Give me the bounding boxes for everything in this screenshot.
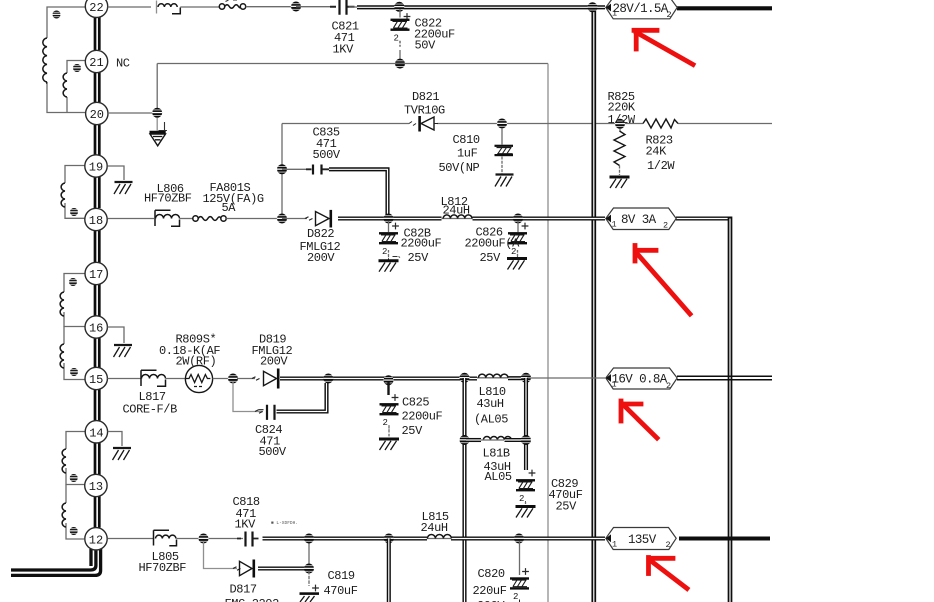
- svg-text:24uH: 24uH: [443, 204, 470, 218]
- svg-text:2: 2: [666, 540, 671, 550]
- wire pin20 net horizontal: [157, 63, 548, 65]
- ground triangle (hatched): [150, 132, 166, 146]
- net tag 135V: [606, 528, 676, 551]
- wire pin20 to junction: [108, 112, 157, 114]
- inductor L805: [154, 530, 177, 546]
- winding 14-13: [62, 432, 86, 485]
- pin19 stub wire: [108, 166, 125, 180]
- inductor L804 (top, label cut off): [157, 1, 181, 14]
- junction D819 anode: [228, 374, 238, 384]
- polarity dot winding C: [70, 474, 78, 482]
- diode D817: [233, 560, 254, 578]
- wire to C835: [282, 168, 310, 170]
- pin 16: [85, 316, 107, 338]
- junction C820 top: [514, 534, 524, 544]
- svg-text:HF70ZBF: HF70ZBF: [144, 192, 192, 206]
- pin 15: [85, 367, 107, 389]
- C825 ground: [379, 439, 399, 450]
- wire under L815: [427, 538, 451, 540]
- svg-text:FMG-2202: FMG-2202: [225, 597, 280, 602]
- 16V rail thick: [280, 376, 477, 380]
- svg-text:25V: 25V: [402, 424, 424, 438]
- inductor L815: [427, 535, 451, 539]
- svg-text:1uF: 1uF: [457, 147, 478, 161]
- riser junctions: [308, 541, 310, 566]
- svg-text:50V(NP: 50V(NP: [439, 161, 480, 175]
- svg-text:1KV: 1KV: [235, 518, 257, 532]
- pin 17: [85, 262, 107, 284]
- capacitor C825: [380, 382, 399, 437]
- svg-text:12: 12: [89, 533, 103, 547]
- svg-text:2200uF: 2200uF: [402, 410, 443, 424]
- junction C835 left: [277, 164, 287, 174]
- vertical net x=465: [462, 378, 466, 602]
- junction L818 right: [521, 435, 531, 445]
- wire pin20 net riser: [156, 64, 158, 109]
- wire pin12 to L805: [108, 538, 155, 540]
- pin 21: [85, 50, 107, 72]
- svg-text:220uF: 220uF: [473, 584, 507, 598]
- polarity dot winding G: [70, 208, 78, 216]
- pin 18: [85, 208, 107, 230]
- 28V rail right segment: [677, 6, 772, 10]
- small tick mark: [159, 122, 168, 131]
- red arrow 2: [635, 246, 690, 315]
- winding 13-12: [62, 485, 84, 540]
- svg-text:NC: NC: [116, 57, 130, 71]
- svg-text:16V 0.8A: 16V 0.8A: [612, 373, 668, 387]
- thick link D817 to junction: [258, 566, 306, 570]
- thin 16V link to tag: [527, 377, 605, 379]
- C826 ground: [507, 259, 527, 270]
- 16V rail right segment (double): [677, 376, 772, 379]
- svg-text:D821: D821: [412, 90, 439, 104]
- svg-text:43uH: 43uH: [477, 397, 504, 411]
- pin 13: [85, 474, 107, 496]
- svg-text:1/2W: 1/2W: [608, 113, 636, 127]
- svg-text:500V: 500V: [259, 445, 287, 459]
- svg-text:5A: 5A: [222, 201, 237, 215]
- svg-text:2: 2: [667, 10, 672, 20]
- wire: [166, 378, 187, 380]
- pin14 stub wire: [108, 432, 122, 447]
- svg-text:15: 15: [89, 373, 103, 387]
- svg-text:2200uF: 2200uF: [401, 237, 442, 251]
- svg-text:470uF: 470uF: [324, 584, 358, 598]
- resistor R825 (vertical): [614, 129, 625, 176]
- junction pin20 ground: [152, 108, 162, 118]
- inductor L812: [443, 215, 472, 219]
- C810 ground: [495, 175, 514, 187]
- wire y=123.5: [282, 123, 772, 125]
- capacitor C820: [510, 541, 529, 602]
- svg-text:AL05: AL05: [485, 470, 512, 484]
- svg-text:2: 2: [666, 381, 671, 391]
- polarity dot winding B: [73, 64, 81, 72]
- wire under L810: [477, 377, 508, 379]
- 135V rail thick: [263, 536, 428, 540]
- red arrow 3: [621, 401, 657, 438]
- svg-text:135V: 135V: [628, 533, 657, 547]
- junction C825 top: [383, 375, 393, 385]
- capacitor C821: [330, 0, 355, 15]
- wire with ticks: [237, 378, 255, 380]
- wire pin18 to L806: [108, 218, 155, 220]
- winding 19-18: [61, 166, 85, 219]
- winding 21-20: [63, 61, 85, 113]
- svg-text:200V: 200V: [307, 251, 335, 265]
- junction L815 left: [384, 534, 394, 544]
- pin19 ground: [114, 182, 133, 194]
- R825 ground: [610, 177, 630, 188]
- svg-text:CORE-F/B: CORE-F/B: [123, 403, 178, 417]
- winding 16-15: [60, 327, 85, 380]
- polarity dot winding D: [70, 527, 78, 535]
- junction C822 top: [394, 2, 404, 12]
- 28V rail thick: [357, 5, 605, 9]
- svg-text:22: 22: [89, 1, 103, 15]
- wire: [213, 378, 230, 380]
- junction C828 top: [383, 214, 393, 224]
- vertical link L810 right down: [524, 378, 528, 470]
- gray net line x=548: [547, 64, 549, 602]
- svg-text:1/2W: 1/2W: [647, 159, 675, 173]
- wire: [296, 6, 336, 8]
- 8V rail thick: [338, 216, 442, 220]
- C829 ground: [516, 507, 536, 518]
- svg-text:21: 21: [89, 56, 103, 70]
- thick link C835 to 8V rail: [329, 169, 388, 218]
- svg-text:■ L-XDFDH.: ■ L-XDFDH.: [271, 520, 298, 526]
- junction C826 top: [513, 214, 523, 224]
- capacitor C819: [300, 571, 320, 602]
- svg-text:25V: 25V: [556, 500, 578, 514]
- svg-text:L81B: L81B: [483, 447, 510, 461]
- svg-text:HF70ZBF: HF70ZBF: [139, 561, 187, 575]
- svg-text:200V: 200V: [260, 355, 288, 369]
- svg-text:24uH: 24uH: [421, 521, 448, 535]
- 8V rail corner to bus2: [676, 216, 730, 220]
- capacitor C828: [379, 221, 400, 260]
- C824 bypass loop: [233, 382, 327, 420]
- wire: [180, 6, 219, 8]
- svg-text:13: 13: [89, 480, 103, 494]
- wire: [349, 6, 359, 8]
- svg-text:25V: 25V: [408, 251, 430, 265]
- svg-text:16: 16: [89, 322, 103, 336]
- junction L810 left: [459, 373, 469, 383]
- svg-text:2W(RF): 2W(RF): [176, 355, 217, 369]
- winding 17-16: [60, 274, 85, 327]
- junction C822 bottom: [395, 59, 405, 69]
- net tag 8V 3A: [606, 208, 676, 231]
- net tag 28V/1.5A: [606, 0, 677, 20]
- fuse F801 (top, label cut off): [219, 0, 245, 9]
- pin 19: [85, 155, 107, 177]
- capacitor C829: [516, 470, 535, 508]
- svg-text:25V: 25V: [480, 251, 502, 265]
- capacitor C810: [495, 128, 514, 174]
- svg-text:28V/1.5A: 28V/1.5A: [613, 2, 669, 16]
- net tag 16V 0.8A: [606, 368, 677, 391]
- svg-text:14: 14: [89, 426, 103, 440]
- pin 22: [85, 0, 107, 18]
- svg-text:TVR10G: TVR10G: [404, 104, 445, 118]
- svg-text:2200uF(A: 2200uF(A: [465, 237, 521, 251]
- wire: [282, 218, 307, 220]
- svg-text:17: 17: [89, 268, 103, 282]
- svg-text:1: 1: [612, 380, 617, 390]
- junction D817 branch: [198, 534, 208, 544]
- inductor L810: [478, 374, 508, 378]
- svg-text:24K: 24K: [646, 145, 668, 159]
- junction bus1 top: [587, 2, 597, 12]
- svg-text:1: 1: [612, 9, 617, 19]
- fusible resistor R809S: [185, 365, 212, 392]
- red arrow 1: [634, 30, 693, 64]
- pin 12: [85, 528, 107, 550]
- vertical bus 2: [728, 217, 733, 602]
- diode D822: [305, 210, 331, 228]
- svg-text:C819: C819: [328, 569, 355, 583]
- svg-text:C820: C820: [478, 567, 505, 581]
- polarity dot winding F: [70, 368, 78, 376]
- 135V rail right segment: [679, 536, 770, 540]
- svg-text:2: 2: [663, 221, 668, 231]
- svg-text:19: 19: [89, 161, 103, 175]
- svg-text:D817: D817: [230, 583, 257, 597]
- diode D821 (TVR10G, pointing left): [409, 116, 438, 132]
- polarity dot winding E: [69, 278, 77, 286]
- svg-text:20: 20: [90, 108, 104, 122]
- C828 ground: [379, 261, 399, 272]
- pin14 ground: [113, 448, 132, 460]
- pin 14: [85, 421, 107, 443]
- diode D819: [264, 369, 279, 389]
- svg-text:8V 3A: 8V 3A: [621, 213, 657, 227]
- junction L810 right: [521, 373, 531, 383]
- svg-text:50V: 50V: [415, 39, 437, 53]
- wire: [246, 6, 296, 8]
- junction R825 top: [615, 119, 625, 129]
- svg-text:C810: C810: [453, 133, 480, 147]
- winding 22-20: [43, 7, 85, 113]
- svg-text:(AL05: (AL05: [474, 413, 508, 427]
- svg-text:500V: 500V: [313, 148, 341, 162]
- fuse FA801S: [193, 216, 282, 221]
- wire down to chassis triangle: [156, 118, 158, 131]
- red arrow 4: [649, 558, 688, 589]
- junction x282 on 8V row: [277, 214, 287, 224]
- inductor L818: [466, 437, 524, 440]
- pin16 stub wire: [108, 327, 125, 343]
- svg-text:1: 1: [612, 540, 617, 550]
- pin16 ground: [114, 345, 133, 357]
- inductor L817: [141, 370, 166, 386]
- capacitor C835: [306, 165, 329, 175]
- capacitor C822: [391, 9, 411, 59]
- junction L818 left: [459, 435, 469, 445]
- polarity dot winding A: [52, 11, 60, 19]
- junction C810 top: [497, 119, 507, 129]
- vertical thick x=389 down: [387, 539, 391, 602]
- svg-text:C825: C825: [402, 396, 429, 410]
- D817 branch wire: [204, 541, 238, 569]
- resistor R823 (horizontal): [643, 119, 678, 128]
- junction node: [291, 2, 301, 12]
- svg-text:1: 1: [612, 220, 617, 230]
- svg-text:1KV: 1KV: [333, 43, 355, 57]
- wire x=282 riser: [281, 124, 283, 219]
- inductor L806: [155, 210, 180, 226]
- core / return bus bottom-left: [11, 549, 101, 575]
- wire pin22 to L804: [108, 6, 151, 8]
- wire: [180, 218, 194, 220]
- junction C824 return: [323, 374, 333, 384]
- capacitor C818: [237, 532, 259, 547]
- vertical bus 1: [591, 7, 596, 602]
- core between pins: [95, 18, 99, 528]
- wire: [177, 538, 244, 540]
- capacitor C826: [508, 221, 528, 260]
- svg-text:D822: D822: [307, 227, 334, 241]
- wire pin15 to L817: [108, 378, 142, 380]
- svg-text:18: 18: [89, 214, 103, 228]
- pin 20: [86, 102, 108, 124]
